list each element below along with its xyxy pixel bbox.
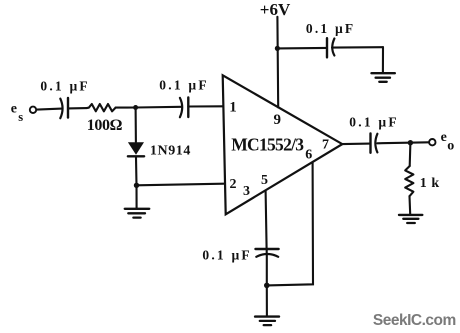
svg-text:+6V: +6V <box>260 0 291 19</box>
svg-text:o: o <box>447 139 454 154</box>
svg-text:9: 9 <box>273 112 281 128</box>
svg-text:0.1 µF: 0.1 µF <box>159 77 208 92</box>
svg-text:0.1 µF: 0.1 µF <box>349 114 398 129</box>
svg-text:3: 3 <box>243 184 250 199</box>
svg-text:s: s <box>18 110 23 124</box>
svg-text:e: e <box>441 130 447 145</box>
svg-text:e: e <box>11 102 17 117</box>
svg-text:MC1552/3: MC1552/3 <box>231 134 304 154</box>
svg-text:0.1 µF: 0.1 µF <box>202 248 251 263</box>
svg-text:7: 7 <box>322 138 329 153</box>
svg-text:1 k: 1 k <box>420 176 440 191</box>
svg-text:5: 5 <box>261 173 268 188</box>
svg-text:6: 6 <box>305 148 312 163</box>
svg-text:1: 1 <box>229 100 237 116</box>
svg-text:0.1 µF: 0.1 µF <box>306 21 355 36</box>
svg-text:0.1 µF: 0.1 µF <box>40 78 89 93</box>
svg-text:2: 2 <box>230 177 237 192</box>
svg-text:SeekIC.com: SeekIC.com <box>373 312 456 329</box>
svg-text:1N914: 1N914 <box>150 144 191 159</box>
svg-text:100Ω: 100Ω <box>87 117 123 134</box>
